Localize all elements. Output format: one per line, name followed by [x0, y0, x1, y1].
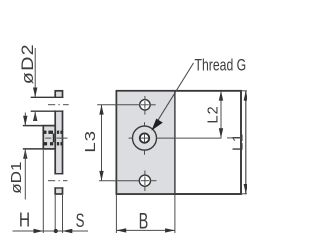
bottom hole center cross [99, 180, 139, 182]
centre line segment under L1 label [227, 137, 242, 139]
thread pattern row 2 [43, 142, 62, 145]
bottom hole void across plate (side view) [54, 174, 64, 187]
Thread G leader arrowhead [152, 119, 163, 131]
svg-text:L1: L1 [229, 133, 246, 151]
bottom hole lower edge (side view) [54, 187, 63, 189]
B dimension line [116, 229, 174, 231]
L1 top arrow (up) [244, 91, 248, 101]
boundary line gray/white [174, 91, 176, 194]
svg-text:S: S [76, 210, 85, 232]
L3 dimension line [101, 105, 103, 181]
øD1 dimension lower arrow (up) [23, 149, 27, 159]
øD2 dimension leader line [34, 48, 36, 97]
L1 dimension line [245, 91, 247, 194]
B extension line right [174, 195, 176, 233]
svg-text:øD2: øD2 [19, 43, 37, 84]
S arrow (points left at plate right face) [63, 229, 73, 233]
bottom hole center line (side view) [48, 180, 55, 182]
L3 top arrow (up) [99, 105, 103, 115]
svg-text:B: B [139, 208, 149, 233]
center threaded hole inner circle (thread) [140, 133, 149, 142]
øD1 extension line bottom (hub bottom edge extended) [23, 148, 44, 150]
øD1 extension line top (hub top edge extended) [23, 125, 44, 127]
øD1 dimension upper arrow (down) [24, 113, 26, 127]
top hole (front view) [140, 100, 150, 110]
L1 bottom arrow (down) [244, 184, 248, 194]
top hole center line (side view) [48, 104, 55, 106]
center hole center cross [129, 137, 133, 139]
S extension line (plate right face) [62, 195, 64, 233]
thread pattern centre connector [53, 134, 55, 143]
svg-text:øD1: øD1 [9, 161, 25, 193]
top hole void across plate (side view) [54, 98, 64, 110]
top hole lower edge + øD2 extension line [31, 110, 64, 112]
bottom hole upper edge (side view) [54, 173, 63, 175]
svg-text:Thread G: Thread G [195, 57, 247, 75]
S extension line (plate left face) [54, 195, 56, 233]
svg-text:L3: L3 [82, 130, 99, 152]
L2 bottom arrow (down) [219, 128, 223, 138]
thread pattern row 1 [43, 131, 62, 134]
front plate outline (white part) [116, 91, 241, 194]
H extension line (hub left face) [42, 150, 44, 233]
hub center line (side view) [45, 137, 51, 139]
L2 top arrow (up) [219, 91, 223, 101]
øD2 lower arrow (up) [33, 111, 37, 121]
H-S dimension line [13, 230, 89, 232]
gray bracket area [116, 91, 174, 194]
L1 extension lines [241, 90, 247, 92]
L3 bottom arrow (down) [99, 171, 103, 181]
øD2 upper arrow (down) [33, 88, 37, 98]
center threaded hole outer circle [133, 126, 157, 150]
B right arrow (points right) [165, 228, 175, 232]
bottom hole (front view) [139, 175, 150, 186]
svg-text:L2: L2 [205, 105, 221, 123]
threaded hub / boss (side view) [43, 126, 55, 149]
svg-text:H: H [19, 209, 30, 231]
B extension line left [115, 195, 117, 233]
junction dot at plate left face [54, 229, 58, 233]
L2 dimension line [220, 91, 222, 138]
top hole upper edge + øD2 extension line [31, 96, 64, 98]
plate body (side view) [55, 91, 62, 194]
top hole center cross [97, 104, 139, 106]
B left arrow (points left) [116, 228, 126, 232]
H arrow (points right at hub face) [34, 229, 44, 233]
Thread G leader line [156, 63, 194, 124]
